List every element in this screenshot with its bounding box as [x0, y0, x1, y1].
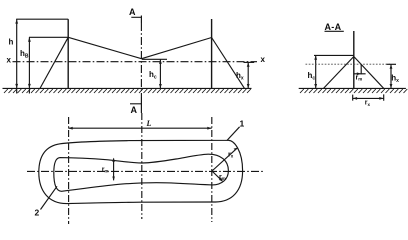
- plan: radius arrow rm: [212, 171, 222, 181]
- section dim hc: arrows: [314, 55, 317, 88]
- plan: rm dimension arrows: [112, 158, 115, 181]
- section mast: [353, 31, 355, 88]
- ground (section A-A): [299, 87, 406, 89]
- section rx: extension ticks: [353, 94, 384, 100]
- dimension hc: extension line: [142, 58, 167, 60]
- leader for label 1: [227, 127, 240, 141]
- right mast: [211, 19, 213, 88]
- svg-text:hx: hx: [391, 74, 399, 85]
- section rm arrow: [357, 72, 361, 75]
- dimension hx (elevation): line: [247, 62, 249, 88]
- dimension hx (elevation): arrows: [247, 62, 250, 88]
- plan: dimension L arrows: [68, 127, 211, 130]
- svg-text:hc: hc: [308, 71, 316, 82]
- dimension h: top extension line: [16, 18, 68, 20]
- section rx: arrows: [353, 97, 384, 100]
- svg-text:L: L: [146, 119, 152, 128]
- dimension h: line: [16, 19, 18, 93]
- plan: outer boundary contour (1): [39, 140, 243, 203]
- svg-text:A: A: [129, 7, 136, 17]
- plan: inner boundary contour (2): [54, 154, 229, 191]
- antenna wire right span: [142, 38, 212, 59]
- plan: middle A-A centreline: [141, 113, 143, 219]
- plan: left mast centreline: [68, 117, 70, 224]
- plan: dimension L line: [68, 127, 211, 129]
- plan: right mast centreline: [211, 117, 213, 222]
- dimension hc: line: [159, 59, 161, 88]
- dimension hB: line: [28, 37, 30, 93]
- section right guy wire: [354, 57, 384, 89]
- right guy wire: [212, 38, 245, 89]
- section rm tick: [360, 64, 362, 74]
- antenna wire left span: [68, 37, 141, 58]
- dimension hB: arrows: [28, 37, 31, 88]
- section dim hx: line: [390, 64, 392, 88]
- section dim hx: arrows: [390, 64, 393, 88]
- leader for label 2: [41, 186, 58, 209]
- ground hatching (section): [300, 89, 407, 93]
- section tick bottom: [130, 103, 141, 105]
- dimension hc: arrows: [159, 59, 162, 88]
- left guy wire: [40, 37, 68, 88]
- svg-text:hB: hB: [20, 49, 29, 60]
- x-x level line (dash-dot): [13, 61, 258, 63]
- ground (elevation): [3, 87, 252, 89]
- svg-text:rx: rx: [365, 100, 371, 107]
- svg-text:A-A: A-A: [325, 22, 342, 32]
- section line A-A (vertical): [140, 16, 142, 24]
- section dim hc: extension: [314, 54, 354, 56]
- section tick top: [131, 16, 141, 18]
- section dim hc: line: [315, 55, 317, 88]
- section rm dimension line: [354, 73, 366, 75]
- svg-text:rm: rm: [102, 166, 109, 173]
- plan: rm dimension shaft: [113, 159, 115, 181]
- svg-text:hx: hx: [236, 71, 244, 82]
- left mast: [67, 19, 69, 88]
- svg-text:1: 1: [240, 119, 245, 129]
- svg-text:2: 2: [35, 208, 40, 218]
- ground hatching (elevation): [4, 89, 251, 93]
- svg-text:x: x: [261, 55, 266, 64]
- svg-text:rm: rm: [356, 75, 363, 82]
- dimension hB: extension line at wire level: [29, 36, 68, 38]
- dimension h: arrows: [15, 19, 18, 88]
- section x level dotted line: [306, 63, 391, 65]
- section left guy wire: [324, 57, 354, 89]
- section dim hx: extension: [387, 63, 397, 65]
- svg-text:A: A: [131, 105, 138, 115]
- A-A title underline: [325, 30, 344, 32]
- svg-text:rm: rm: [219, 174, 226, 181]
- svg-text:hc: hc: [149, 70, 157, 81]
- dimension hx (elevation): extension line: [244, 61, 255, 63]
- section rx: dimension line: [353, 97, 384, 99]
- svg-text:h: h: [9, 38, 14, 47]
- svg-text:x: x: [7, 56, 12, 65]
- plan: radius arrow rx: [212, 148, 237, 171]
- plan: horizontal centreline: [27, 170, 263, 172]
